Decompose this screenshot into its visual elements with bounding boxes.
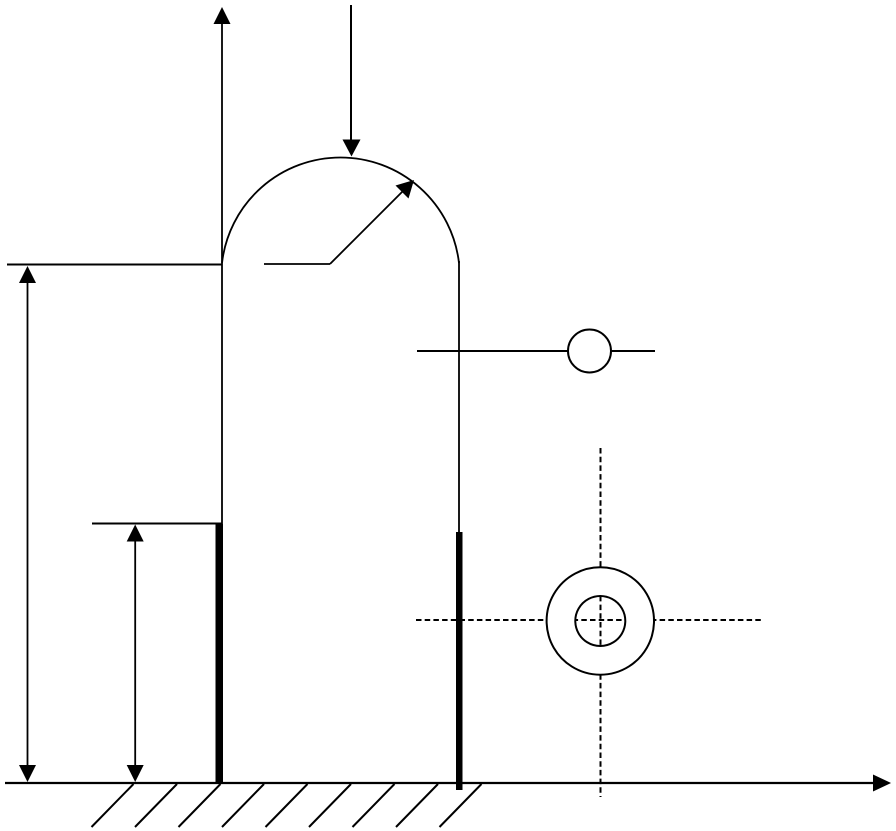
donut washer (annulus)	[547, 567, 654, 674]
side line through small circle	[417, 350, 655, 352]
y-axis line	[221, 22, 223, 783]
radius leader arrowhead	[396, 180, 415, 199]
y-axis arrowhead	[214, 7, 231, 24]
x-axis arrowhead	[873, 775, 891, 792]
dome arc	[222, 157, 459, 263]
lower height reference line	[92, 523, 222, 525]
top height reference line	[7, 264, 222, 266]
radius leader diagonal line	[330, 190, 404, 264]
second dimension bottom arrowhead	[127, 765, 144, 782]
hatching under baseline	[92, 784, 482, 827]
dome right side upper thin line	[458, 261, 460, 532]
dashed horizontal centerline	[416, 619, 763, 621]
radius leader horizontal segment	[264, 263, 330, 265]
vertical drop arrowhead	[343, 140, 361, 157]
vertical drop arrow line	[350, 5, 352, 142]
ground baseline (x-axis)	[5, 782, 876, 784]
right thick wall bar	[456, 532, 463, 790]
dashed vertical centerline	[600, 448, 602, 797]
left dimension top arrowhead	[19, 266, 36, 283]
left dimension line	[27, 270, 29, 778]
second dimension line	[134, 529, 136, 778]
second dimension top arrowhead	[127, 525, 144, 542]
left thick wall bar	[216, 524, 224, 783]
left dimension bottom arrowhead	[19, 765, 36, 782]
small circle	[568, 330, 611, 373]
